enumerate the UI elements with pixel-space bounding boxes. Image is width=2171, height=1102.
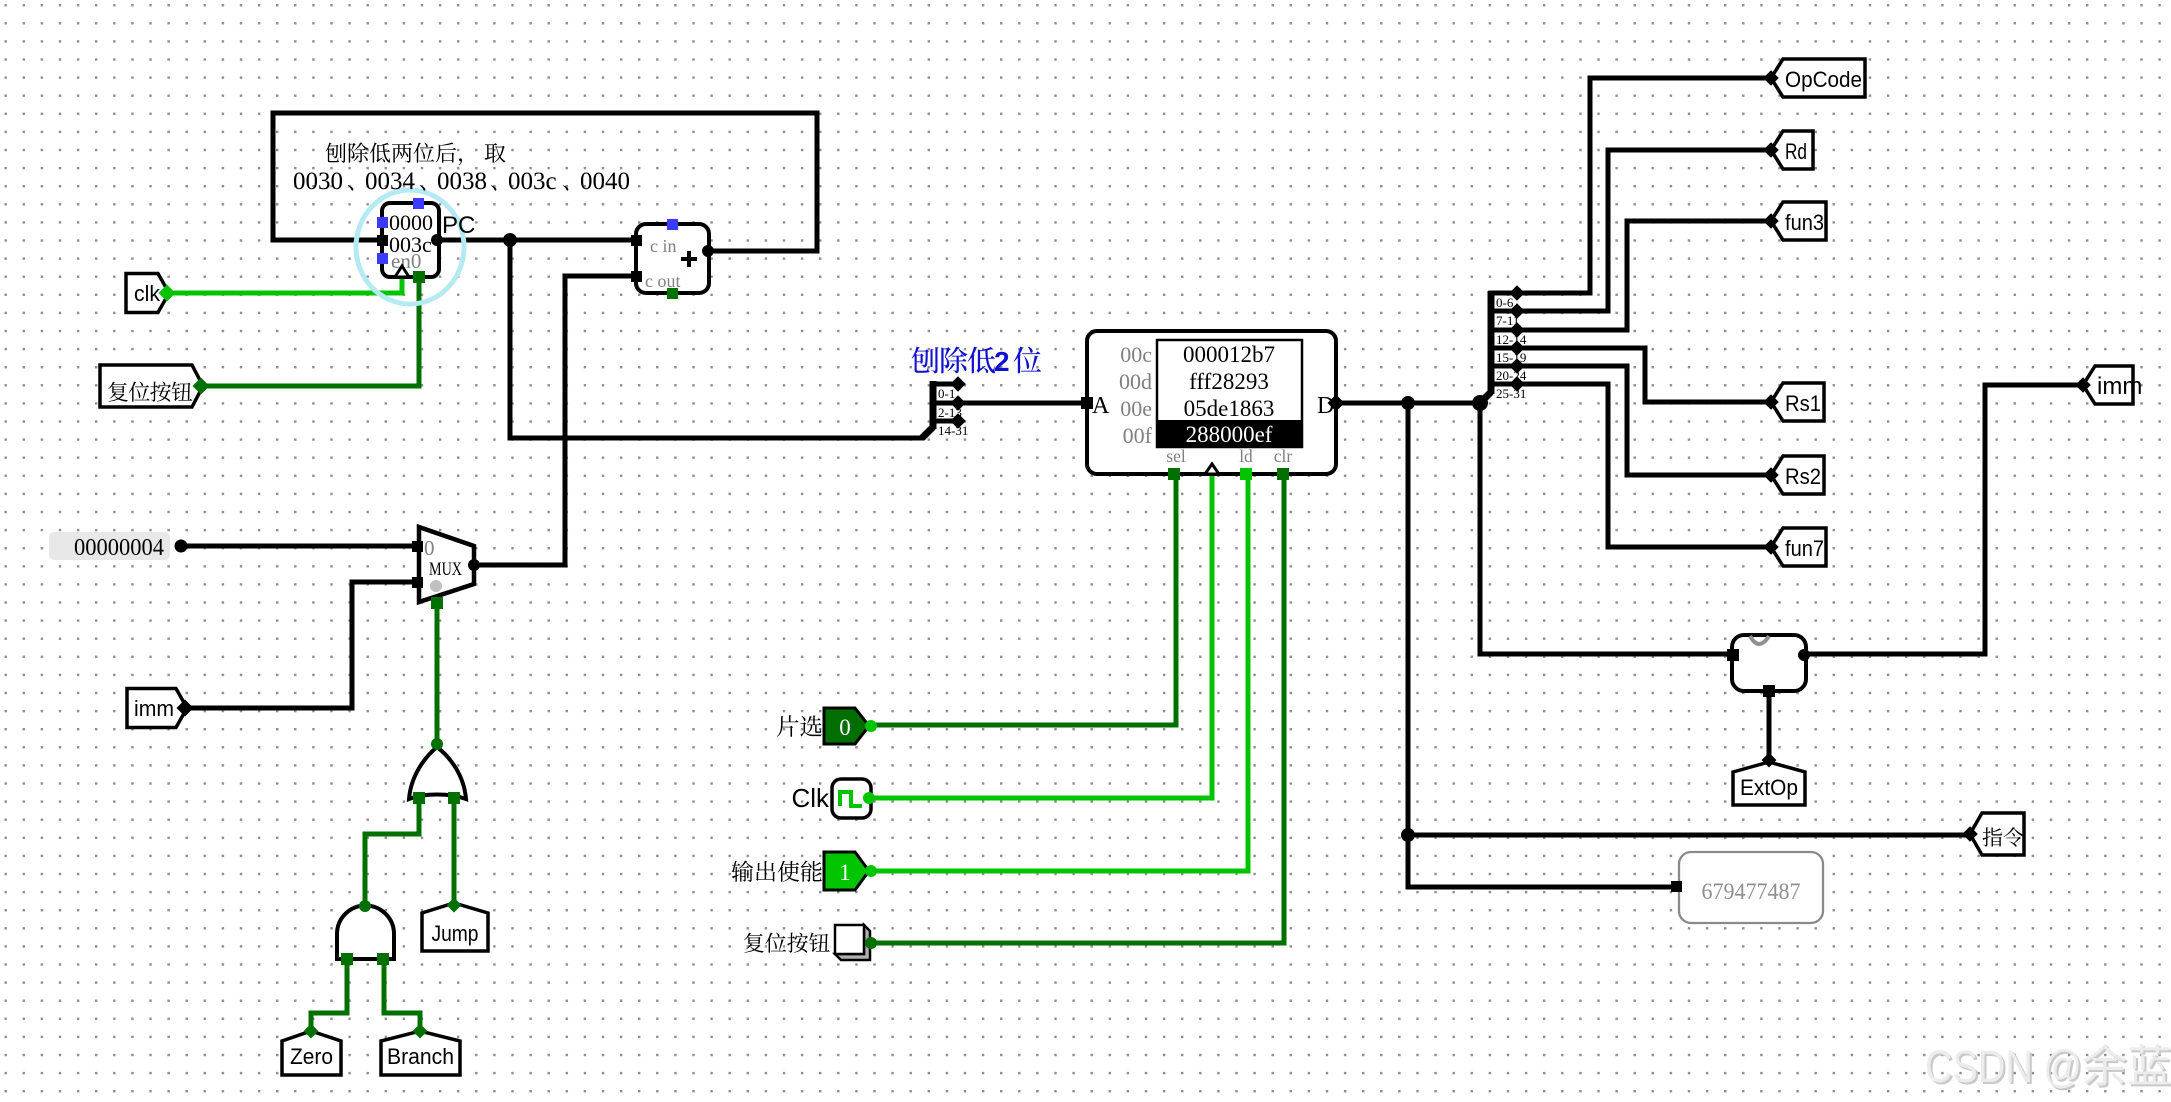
svg-text:MUX: MUX: [429, 559, 462, 580]
svg-text:Rs2: Rs2: [1785, 464, 1821, 489]
svg-text:0-1: 0-1: [938, 386, 955, 401]
svg-text:Rd: Rd: [1785, 139, 1807, 164]
svg-text:25-31: 25-31: [1496, 386, 1526, 401]
svg-text:0: 0: [424, 536, 435, 560]
svg-text:679477487: 679477487: [1702, 879, 1801, 904]
svg-text:0040: 0040: [580, 168, 630, 195]
svg-text:288000ef: 288000ef: [1186, 422, 1273, 447]
svg-text:0038: 0038: [437, 168, 487, 195]
svg-text:0-6: 0-6: [1496, 295, 1514, 310]
svg-text:OpCode: OpCode: [1785, 67, 1862, 92]
svg-text:A: A: [1092, 393, 1110, 419]
svg-text:Branch: Branch: [387, 1044, 454, 1069]
svg-text:fun7: fun7: [1785, 536, 1824, 561]
svg-text:sel: sel: [1166, 446, 1186, 466]
svg-text:ExtOp: ExtOp: [1740, 775, 1798, 800]
svg-text:00000004: 00000004: [74, 535, 164, 561]
svg-text:en0: en0: [391, 249, 421, 273]
svg-text:fun3: fun3: [1785, 210, 1824, 235]
svg-text:000012b7: 000012b7: [1183, 342, 1275, 367]
svg-text:CSDN @: CSDN @: [1925, 1041, 2082, 1092]
svg-text:2-13: 2-13: [938, 405, 962, 420]
svg-text:clk: clk: [134, 281, 161, 306]
svg-text:003c: 003c: [508, 168, 557, 195]
svg-text:c in: c in: [650, 236, 677, 256]
svg-text:1: 1: [839, 860, 851, 885]
svg-text:0: 0: [839, 715, 851, 740]
svg-text:20-24: 20-24: [1496, 368, 1527, 383]
svg-text:00c: 00c: [1120, 342, 1152, 367]
svg-text:ld: ld: [1239, 446, 1253, 466]
svg-text:Jump: Jump: [432, 921, 479, 946]
svg-text:00d: 00d: [1119, 369, 1152, 394]
svg-text:Zero: Zero: [290, 1044, 333, 1069]
svg-text:imm: imm: [2097, 373, 2142, 400]
svg-text:fff28293: fff28293: [1189, 369, 1269, 394]
svg-text:12-14: 12-14: [1496, 332, 1527, 347]
svg-text:PC: PC: [442, 212, 475, 239]
svg-text:05de1863: 05de1863: [1184, 396, 1275, 421]
svg-text:clr: clr: [1274, 446, 1293, 466]
svg-text:imm: imm: [134, 696, 174, 721]
svg-text:Rs1: Rs1: [1785, 391, 1821, 416]
svg-text:15-19: 15-19: [1496, 350, 1526, 365]
svg-text:0030: 0030: [293, 168, 343, 195]
svg-text:Clk: Clk: [791, 783, 830, 813]
svg-text:14-31: 14-31: [938, 423, 968, 438]
svg-text:00f: 00f: [1123, 423, 1153, 448]
svg-text:7-11: 7-11: [1496, 313, 1519, 328]
svg-text:00e: 00e: [1120, 396, 1152, 421]
svg-text:0034: 0034: [365, 168, 416, 195]
svg-text:2: 2: [994, 346, 1010, 377]
